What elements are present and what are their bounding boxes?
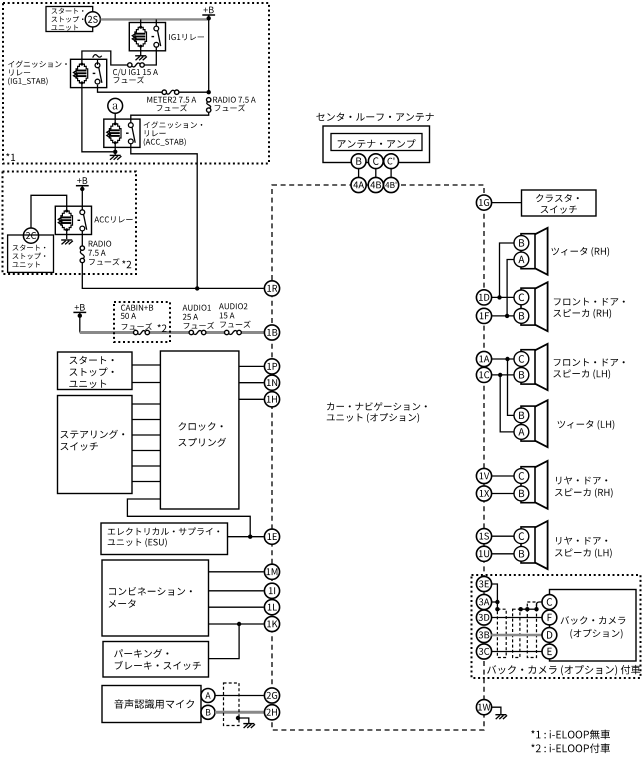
ground ACC_STAB / IG1_STAB <box>110 152 122 160</box>
wire a to ACC_STAB coil <box>114 113 116 123</box>
connector 3C <box>476 644 491 659</box>
junction +B / METER2 <box>207 90 211 94</box>
junction 1F tweeter tap <box>505 314 509 318</box>
shield dashed run top <box>500 601 521 603</box>
label AUDIO2 fuse <box>219 303 251 328</box>
connector 1F <box>476 308 491 323</box>
wire antenna C to 4B <box>375 168 377 177</box>
connector mic B <box>201 705 215 719</box>
connector 1X <box>476 486 491 501</box>
start-stop unit box (main) <box>58 352 133 390</box>
fuse F5 CABIN+B 50A <box>134 330 150 334</box>
label combination meter <box>109 587 192 608</box>
label back-camera-equipped <box>487 665 640 676</box>
speaker tweeter LH <box>514 400 548 447</box>
wire 1G to cluster switch <box>491 202 521 204</box>
wire 2C to ACC coil <box>31 195 67 228</box>
wire tweeter LH A <box>500 375 514 432</box>
connector 1H <box>264 392 279 407</box>
label RADIO fuse (unit 2) <box>88 241 119 266</box>
dashed box back-camera-equipped <box>472 575 641 678</box>
label front door speaker RH <box>553 298 624 319</box>
wire IG1 coil to ground <box>140 46 142 55</box>
power +B (top) <box>202 7 215 21</box>
wire +B vertical feed <box>208 15 210 92</box>
wire ACC coil to ground <box>66 230 68 239</box>
label cluster switch <box>536 194 579 214</box>
label ignition relay (ACC_STAB) <box>144 121 203 146</box>
note *2 i-ELOOP <box>531 743 610 753</box>
wire mic A to 2G <box>215 695 264 697</box>
wire IG1_STAB coil bottom to shared ground <box>82 83 113 152</box>
start-stop unit box (unit 2) <box>8 235 54 272</box>
fuse F1 C/U IG1 15A <box>128 63 145 67</box>
label ignition relay (IG1_STAB) <box>8 60 67 85</box>
junction 3A/3E <box>495 600 499 604</box>
junction node 1E <box>248 535 252 539</box>
connector a <box>108 98 123 113</box>
antenna amp box <box>331 134 422 151</box>
wire SSU to clock spring 1 <box>132 364 160 366</box>
connector 1D <box>476 290 491 305</box>
back camera box <box>550 590 637 662</box>
wire drain bus to camera C <box>537 602 543 609</box>
car navigation unit dashed box <box>272 185 484 730</box>
connector 3D <box>476 610 491 625</box>
fuse F7 AUDIO2 15A <box>225 330 242 334</box>
connector camera F <box>542 610 557 625</box>
label clock spring <box>179 422 227 447</box>
connector antenna C <box>368 154 383 169</box>
connector 1M <box>264 564 279 579</box>
connector 2S <box>85 12 100 27</box>
connector 3B <box>476 627 491 642</box>
connector 2C <box>23 228 38 243</box>
wire 1S to rear door speaker LH C <box>491 535 514 537</box>
wire 3A to shield junction <box>491 601 497 603</box>
label steering switch <box>61 430 125 451</box>
wire meter to 1K <box>209 623 264 625</box>
connector 1I <box>264 583 279 598</box>
wire parking brake to node 1K <box>209 624 240 659</box>
relay U3 ignition relay ACC_STAB <box>104 119 140 147</box>
wire mic shield drain to ground <box>238 718 249 723</box>
connector camera D <box>542 628 557 643</box>
connector camera C <box>542 595 557 610</box>
label RADIO fuse (unit 1) <box>213 97 255 112</box>
label start-stop unit (unit 2) <box>12 245 45 268</box>
wire ACC_STAB contact output to node 1R line <box>131 144 197 288</box>
wire 3E to shield junction <box>491 584 497 602</box>
fuse F2 METER2 7.5A <box>162 90 179 94</box>
junction node 1R line <box>195 286 199 290</box>
connector 1S <box>476 529 491 544</box>
connector 1W <box>476 700 491 715</box>
shield cable 3 (dashed) <box>527 602 536 658</box>
wire clock spring to 1P <box>239 365 264 367</box>
wire tweeter LH B <box>508 359 515 415</box>
junction shared ground <box>113 150 117 154</box>
junction shield drain 2 <box>519 607 523 611</box>
fuse F6 AUDIO1 25A <box>189 330 206 334</box>
label tweeter LH <box>558 420 615 430</box>
connector 4B <box>368 177 383 192</box>
connector 1A <box>476 351 491 366</box>
junction node 1K <box>237 622 241 626</box>
fuse F3 RADIO 7.5A (unit 1) <box>207 98 211 113</box>
connector 2G <box>264 688 279 703</box>
wire METER2 fuse to +B rail <box>179 91 209 93</box>
shield dashed run mid <box>500 608 519 610</box>
connector 4B' <box>384 177 399 192</box>
connector 3A <box>476 594 491 609</box>
wire fuse to IG1_STAB coil <box>82 51 128 65</box>
label rear door speaker RH <box>555 477 613 498</box>
shield cable 2 (dashed) <box>513 609 520 657</box>
connector 3E <box>476 576 491 591</box>
wire 1F to front door speaker RH B <box>491 315 514 317</box>
ground IG1 relay coil <box>135 55 147 60</box>
junction mic shield drain <box>236 716 240 720</box>
wire ACC contact to RADIO fuse 2 <box>81 231 83 246</box>
label rear door speaker LH <box>555 537 612 558</box>
wire +B audio rail to 1B (gray) <box>80 331 264 334</box>
wire ACC_STAB coil to ground <box>114 143 116 152</box>
start-stop unit box (top) <box>46 7 93 32</box>
junction 1C tweeter tap <box>498 373 502 377</box>
wire clock spring to 1H <box>239 398 264 400</box>
wire +B audio vertical <box>79 312 81 332</box>
connector antenna B <box>351 154 366 169</box>
connector 1B <box>264 325 279 340</box>
label tweeter RH <box>551 247 609 257</box>
ESU box <box>101 523 228 555</box>
wire RADIO fuse 2 to node 1R <box>82 263 263 289</box>
speaker front door LH <box>514 344 548 390</box>
label *2 (unit 2) <box>122 260 131 268</box>
voice recognition mic box <box>102 686 201 723</box>
junction shield drain 1 <box>495 607 499 611</box>
label center roof antenna <box>316 113 433 122</box>
label start-stop unit (top) <box>51 8 83 31</box>
connector 1E <box>264 529 279 544</box>
label C/U IG1 15A fuse <box>113 69 158 84</box>
connector 1L <box>264 600 279 615</box>
label ESU <box>108 527 220 547</box>
label CABIN+B fuse <box>121 305 154 330</box>
speaker tweeter RH <box>514 228 548 275</box>
wire IG1_STAB contact stub with curl <box>93 55 102 65</box>
wire 1W to ground <box>491 707 501 714</box>
label ACC relay <box>94 216 132 222</box>
wire clock spring to 1N <box>239 382 264 384</box>
wire 1D to front door speaker RH C <box>491 296 514 298</box>
wire ESU to 1E <box>228 536 264 538</box>
ground ACC relay coil <box>61 240 73 244</box>
ground mic shield <box>243 724 255 728</box>
connector mic A <box>201 689 215 703</box>
label AUDIO1 fuse <box>183 305 215 329</box>
speaker front door RH <box>514 282 548 331</box>
connector 1K <box>264 616 279 631</box>
wire RADIO fuse to ACC_STAB contact <box>131 112 209 122</box>
wire tweeter RH B <box>500 243 515 297</box>
fuse F4 RADIO 7.5A (unit 2) <box>80 246 84 263</box>
wire 1A to front door speaker LH C <box>491 358 514 360</box>
wire antenna C' to 4B' <box>390 168 392 177</box>
wire IG1 coil top <box>140 19 142 27</box>
wire tweeter RH A <box>507 260 514 316</box>
connector 2H <box>264 705 279 720</box>
label IG1 relay <box>169 34 204 40</box>
wire meter to 1M <box>209 571 264 573</box>
wire +B to ACC contact <box>81 186 83 210</box>
connector 1N <box>264 375 279 390</box>
junction shield drain 4 <box>534 607 538 611</box>
label parking brake switch <box>114 649 201 670</box>
speaker rear door LH <box>514 521 548 569</box>
connector 1G <box>476 195 491 210</box>
dashed box CABIN+B fuse *2 <box>114 302 170 342</box>
wire IG1 contact to fuse <box>144 47 156 65</box>
connector 1C <box>476 367 491 382</box>
wire clock spring to node 1E <box>127 499 250 537</box>
junction 1D tweeter tap <box>497 295 501 299</box>
wire 3C to camera E <box>491 651 542 653</box>
relay U1 IG1 relay <box>129 23 165 51</box>
wire antenna B to 4A <box>358 168 360 177</box>
wire shield drain bus <box>521 608 537 610</box>
relay U2 ignition relay IG1_STAB <box>71 59 107 87</box>
wire mic B to 2H (gray) <box>215 711 264 714</box>
wire 1V to rear door speaker RH C <box>491 475 514 477</box>
shield cable 1 (dashed) <box>497 609 506 657</box>
shield mic cable (dashed) <box>224 683 240 726</box>
dashed unit box *2 (ACC relay unit) <box>3 172 137 275</box>
wire 1C to front door speaker LH B <box>491 374 514 376</box>
label back camera <box>561 616 626 639</box>
dashed unit box *1 (ignition relay unit) <box>3 3 269 164</box>
label start-stop unit (main) <box>69 356 113 388</box>
wire shield drop <box>496 602 498 609</box>
steering switch box <box>58 396 133 494</box>
wire 1X to rear door speaker RH B <box>491 493 514 495</box>
label front door speaker LH <box>553 358 624 379</box>
wire 2S to +B rail (gray) <box>101 18 208 20</box>
connector 4A <box>351 177 366 192</box>
connector 1R <box>264 281 279 296</box>
connector camera E <box>542 644 557 659</box>
parking brake switch box <box>103 642 209 678</box>
label car navigation unit <box>327 402 427 423</box>
connector 1U <box>476 546 491 561</box>
wire SSU to clock spring 2 <box>132 382 160 384</box>
connector 1P <box>264 359 279 374</box>
wire 1U to rear door speaker LH B <box>491 553 514 555</box>
note *1 i-ELOOP <box>531 730 610 740</box>
cluster switch box <box>522 190 597 216</box>
label voice recognition mic <box>114 699 194 709</box>
label *2 (CABIN+B) <box>157 324 166 332</box>
wire meter to 1I <box>209 590 264 592</box>
label *1 <box>6 153 15 161</box>
wire IG1_STAB contact to METER2 fuse <box>98 85 163 93</box>
junction 1A tweeter tap <box>505 357 509 361</box>
power +B (unit 2) <box>76 177 89 191</box>
clock spring box <box>160 351 239 509</box>
junction shield drain 3 <box>525 607 529 611</box>
wire IG1 contact top <box>155 19 157 26</box>
wire meter to 1L <box>209 606 264 608</box>
connector 1V <box>476 468 491 483</box>
relay U4 ACC relay <box>55 206 91 234</box>
speaker rear door RH <box>514 461 548 509</box>
connector antenna C' <box>384 154 399 169</box>
wires steering to clock spring <box>132 404 160 482</box>
label METER2 fuse <box>147 97 196 112</box>
wire 3B to camera D (gray) <box>491 634 542 637</box>
power +B (audio rail) <box>73 304 86 318</box>
wire 3D to camera F <box>491 617 542 619</box>
combination meter box <box>102 560 209 636</box>
label antenna amp <box>338 139 416 148</box>
ground 1W <box>495 715 507 719</box>
antenna outer box <box>323 126 430 163</box>
